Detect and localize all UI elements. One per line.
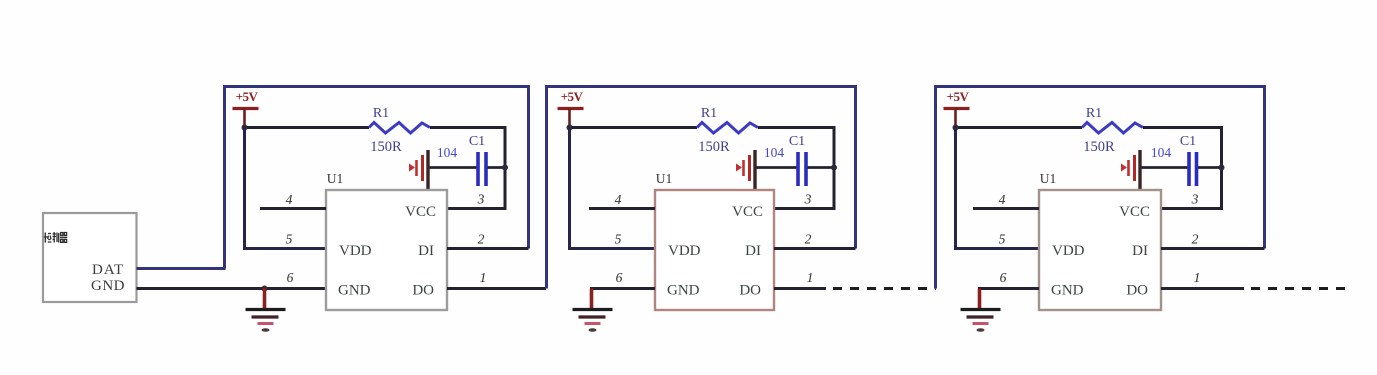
svg-text:VCC: VCC [405,204,436,220]
label 控制器 (controller) [44,232,67,243]
wire DO pin 1 block 3 [1161,287,1244,290]
svg-text:VCC: VCC [1119,204,1150,220]
wire DI pin 2 block 2 [774,247,856,250]
svg-text:GND: GND [338,283,371,299]
svg-text:DO: DO [739,283,761,299]
wire +5V rail to R1 block 3 [956,126,1083,129]
svg-text:3: 3 [477,192,485,207]
svg-text:150R: 150R [370,139,402,155]
svg-text:104: 104 [437,145,458,160]
IC U1 block 3 [1039,190,1161,310]
wire pin 4 stub block 3 [973,207,1039,210]
svg-text:104: 104 [764,145,785,160]
wire data route loop block 2 (in to DI pin 2) [547,87,856,289]
svg-text:6: 6 [1000,270,1007,285]
junction ground tap block 1 [262,286,268,292]
svg-text:DAT: DAT [92,262,124,278]
IC U1 block 1 [326,190,447,310]
wire DAT from controller [137,267,226,270]
svg-text:3: 3 [1191,192,1199,207]
wire DI pin 2 block 3 [1161,247,1265,250]
svg-text:DI: DI [1132,243,1148,259]
svg-text:4: 4 [615,192,622,207]
wire +5V to VDD pin 5 block 3 [956,128,1040,249]
polarized capacitor symbol (red) block 3 [1121,150,1140,190]
resistor R1 block 3 [1082,123,1143,134]
junction rail/VCC feed block 3 [1219,165,1225,171]
power +5V block 1 [233,89,259,128]
junction rail/VCC feed block 1 [502,165,508,171]
wire pin 4 stub block 1 [260,207,326,210]
controller box 控制器 [43,213,137,302]
svg-text:DO: DO [412,283,434,299]
svg-text:C1: C1 [789,134,805,149]
svg-text:2: 2 [478,232,485,247]
svg-text:4: 4 [999,192,1006,207]
junction +5V node block 3 [953,125,959,131]
svg-text:6: 6 [616,270,623,285]
polarized capacitor symbol (red) block 1 [409,150,428,190]
svg-text:+5V: +5V [236,89,259,104]
wire +5V to VDD pin 5 block 1 [245,128,327,249]
svg-text:1: 1 [807,270,814,285]
svg-text:GND: GND [667,283,700,299]
svg-text:GND: GND [91,278,125,294]
resistor R1 block 2 [697,123,758,134]
capacitor C1 block 2 [798,152,806,186]
svg-text:VDD: VDD [339,243,372,259]
wire DO cascade dashed block 3 [1251,287,1352,290]
svg-text:+5V: +5V [561,89,584,104]
svg-text:C1: C1 [469,134,485,149]
svg-text:VDD: VDD [1052,243,1085,259]
svg-text:VDD: VDD [668,243,701,259]
wire R1 to VCC feed block 2 [758,128,834,209]
wire R1 to VCC feed block 1 [430,128,505,209]
wire data route loop block 3 (in to DI pin 2) [936,87,1265,289]
svg-text:1: 1 [480,270,487,285]
resistor R1 block 1 [369,123,430,134]
svg-text:U1: U1 [327,171,344,186]
svg-text:R1: R1 [701,106,717,121]
wire +5V to VDD pin 5 block 2 [570,128,656,249]
power +5V block 2 [558,89,584,128]
wire decoupling rail block 1 [428,166,478,169]
svg-text:C1: C1 [1180,134,1196,149]
wire +5V rail to R1 block 1 [245,126,370,129]
svg-text:U1: U1 [1040,171,1057,186]
svg-text:5: 5 [999,232,1006,247]
svg-text:R1: R1 [1086,106,1102,121]
svg-text:5: 5 [286,232,293,247]
junction +5V node block 1 [242,125,248,131]
svg-text:VCC: VCC [732,204,763,220]
junction +5V node block 2 [567,125,573,131]
svg-text:104: 104 [1151,145,1172,160]
wire DO pin 1 block 1 [447,287,546,290]
svg-text:DI: DI [418,243,434,259]
wire +5V rail to R1 block 2 [570,126,698,129]
IC U1 block 2 [655,190,774,310]
wire GND pin 6 block 2 [590,287,655,290]
svg-text:1: 1 [1194,270,1201,285]
wire decoupling rail block 3 [1140,166,1189,169]
capacitor C1 block 3 [1189,152,1197,186]
wire data route loop block 1 (in to DI pin 2) [225,87,529,269]
svg-text:+5V: +5V [947,89,970,104]
svg-text:DI: DI [745,243,761,259]
svg-text:DO: DO [1126,283,1148,299]
ground block 1 [246,289,286,332]
svg-text:3: 3 [804,192,812,207]
polarized capacitor symbol (red) block 2 [736,150,755,190]
junction rail/VCC feed block 2 [831,165,837,171]
svg-text:4: 4 [286,192,293,207]
capacitor C1 block 1 [478,152,486,186]
wire pin 4 stub block 2 [589,207,655,210]
ground block 2 [573,289,613,332]
svg-text:U1: U1 [656,171,673,186]
power +5V block 3 [944,89,970,128]
svg-text:R1: R1 [373,106,389,121]
svg-text:2: 2 [805,232,812,247]
svg-text:150R: 150R [1083,139,1115,155]
svg-text:6: 6 [287,270,294,285]
wire R1 to VCC feed block 3 [1143,128,1222,209]
svg-text:150R: 150R [698,139,730,155]
wire decoupling rail block 2 [755,166,798,169]
wire DO cascade dashed block 2 [833,287,936,290]
ground block 3 [961,289,1001,332]
wire DI pin 2 block 1 [447,247,529,250]
svg-text:2: 2 [1192,232,1199,247]
wire GND from controller [137,287,327,290]
wire DO pin 1 block 2 [774,287,826,290]
svg-text:5: 5 [615,232,622,247]
svg-text:GND: GND [1051,283,1084,299]
wire GND pin 6 block 3 [978,287,1039,290]
